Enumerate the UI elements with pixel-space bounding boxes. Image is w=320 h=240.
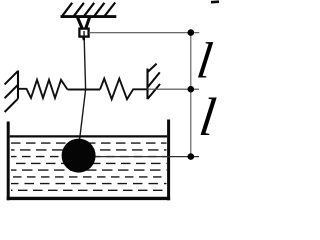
- liquid dash row 7: [11, 183, 167, 185]
- node dot middle: [188, 86, 195, 93]
- right wall hatch middle: [148, 72, 160, 87]
- right wall hatch bottom: [148, 84, 161, 99]
- stray mark top right: [211, 0, 220, 3]
- ceiling hatch 4: [95, 3, 105, 16]
- liquid dash row 4: [11, 162, 167, 164]
- node dot bottom: [188, 153, 195, 160]
- ceiling hatch 3: [84, 3, 94, 16]
- liquid dash row 2: [11, 149, 167, 151]
- ceiling hatch 2: [74, 3, 84, 16]
- left wall anchor vertical: [17, 71, 19, 99]
- dimension vertical line: [190, 33, 192, 157]
- svg-text:l: l: [194, 33, 216, 90]
- tank right wall: [167, 120, 170, 201]
- liquid dash row 3: [11, 156, 167, 158]
- label l lower: [196, 87, 219, 147]
- dimension line top: [89, 32, 200, 34]
- ceiling hatch 1: [62, 3, 72, 16]
- liquid dash row 1: [11, 142, 167, 144]
- hanger bracket left leg: [77, 16, 83, 30]
- liquid dash row 6: [11, 176, 167, 178]
- right wall hatch top: [147, 64, 156, 73]
- left wall hatch middle: [5, 85, 18, 98]
- svg-text:l: l: [196, 87, 219, 147]
- node dot top: [188, 29, 195, 36]
- spring middle link: [68, 89, 101, 91]
- liquid dash row 8: [11, 189, 167, 191]
- string: [80, 31, 86, 140]
- ball mass: [62, 139, 96, 173]
- string knot: [82, 36, 85, 40]
- right wall anchor vertical: [146, 69, 148, 100]
- hanger bracket right leg: [85, 16, 90, 30]
- spring left: [19, 80, 68, 98]
- pulley square: [79, 29, 88, 37]
- tank bottom: [7, 197, 170, 200]
- left wall hatch bottom: [5, 99, 18, 112]
- left wall hatch top: [5, 71, 18, 84]
- ceiling line: [61, 15, 117, 18]
- dimension line bottom: [80, 156, 199, 158]
- tank left wall: [7, 122, 10, 201]
- spring right: [100, 79, 147, 100]
- water surface line: [10, 135, 167, 137]
- label l upper: [194, 33, 216, 90]
- liquid dash row 5: [11, 169, 167, 171]
- dimension line middle: [147, 88, 199, 90]
- ceiling hatch 5: [105, 3, 115, 16]
